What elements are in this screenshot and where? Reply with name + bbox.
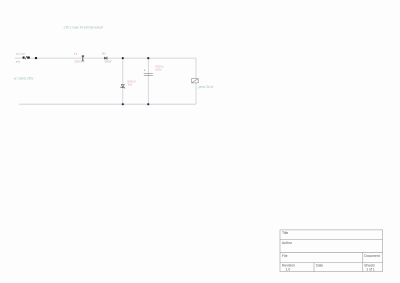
title block value 1.0: [286, 268, 291, 272]
svg-text:T1: T1: [74, 52, 78, 56]
wire: capacitor vertical branch: [147, 58, 149, 104]
title block label Date: [316, 263, 323, 267]
annotation note: ac mains 230v: [14, 77, 34, 81]
title block frame: [280, 230, 383, 272]
title block label Sheets: [364, 263, 375, 267]
wire: switch input stub: [15, 57, 23, 59]
lamp LA1: [192, 79, 199, 83]
svg-text:File: File: [282, 254, 288, 258]
label SW1 reference: [16, 52, 26, 56]
annotation note: prins 34 dc: [198, 85, 214, 89]
diode D1: [104, 57, 107, 60]
wire: right vertical lower segment: [195, 83, 197, 104]
svg-text:prins 34 dc: prins 34 dc: [198, 85, 214, 89]
label SW1 value: [16, 60, 21, 64]
label C1 value line 2: [155, 68, 162, 72]
node: junction after switch: [35, 57, 37, 59]
node: junction capacitor top: [147, 57, 149, 59]
svg-text:D1: D1: [102, 51, 106, 55]
node: junction zener top: [122, 57, 124, 59]
label C1 value line 1: [155, 65, 164, 69]
title block label Document: [364, 254, 380, 258]
wire: top horizontal net: [30, 57, 196, 59]
svg-text:ac mains 230v: ac mains 230v: [14, 77, 34, 81]
switch SW1: [23, 56, 30, 59]
svg-text:1.0: 1.0: [286, 268, 291, 272]
svg-text:sw1: sw1: [16, 60, 21, 64]
transformer T1: [82, 55, 84, 61]
svg-text:Title: Title: [282, 231, 288, 235]
label T1 value 230/34v: [75, 60, 85, 64]
svg-text:SW_SPST: SW_SPST: [16, 52, 26, 56]
label D1 value 1N4007: [105, 59, 112, 63]
label ZD1 value line 2: [127, 83, 132, 87]
zener diode ZD1: [121, 85, 125, 89]
svg-text:Author: Author: [282, 241, 293, 245]
title block value 1 of 1: [366, 268, 375, 272]
label D1 reference: [102, 51, 106, 55]
wire: zener vertical branch: [122, 58, 124, 104]
label T1 reference: [74, 52, 78, 56]
svg-text:+: +: [144, 69, 146, 73]
title block label Title: [282, 231, 288, 235]
svg-text:34v: 34v: [127, 83, 132, 87]
title block label Revision: [282, 263, 295, 267]
svg-text:230/34v: 230/34v: [75, 60, 85, 64]
svg-text:,230 v naar 34 volt die wissel: ,230 v naar 34 volt die wissel: [63, 26, 103, 30]
svg-text:Document: Document: [364, 254, 380, 258]
capacitor C1: [144, 69, 153, 76]
title block label File: [282, 254, 288, 258]
wire: bottom return net: [19, 103, 196, 105]
label ZD1 value line 1: [127, 79, 135, 83]
svg-text:1N4007: 1N4007: [105, 59, 112, 63]
svg-text:Date: Date: [316, 263, 323, 267]
svg-text:100v: 100v: [155, 68, 162, 72]
title block label Author: [282, 241, 293, 245]
svg-text:1 of 1: 1 of 1: [366, 268, 375, 272]
node: junction zener bottom: [122, 103, 124, 105]
annotation note: 230 v naar 34 volt die wissel: [63, 26, 103, 30]
wire: right vertical upper segment: [195, 58, 197, 79]
node: junction capacitor bottom: [147, 103, 149, 105]
